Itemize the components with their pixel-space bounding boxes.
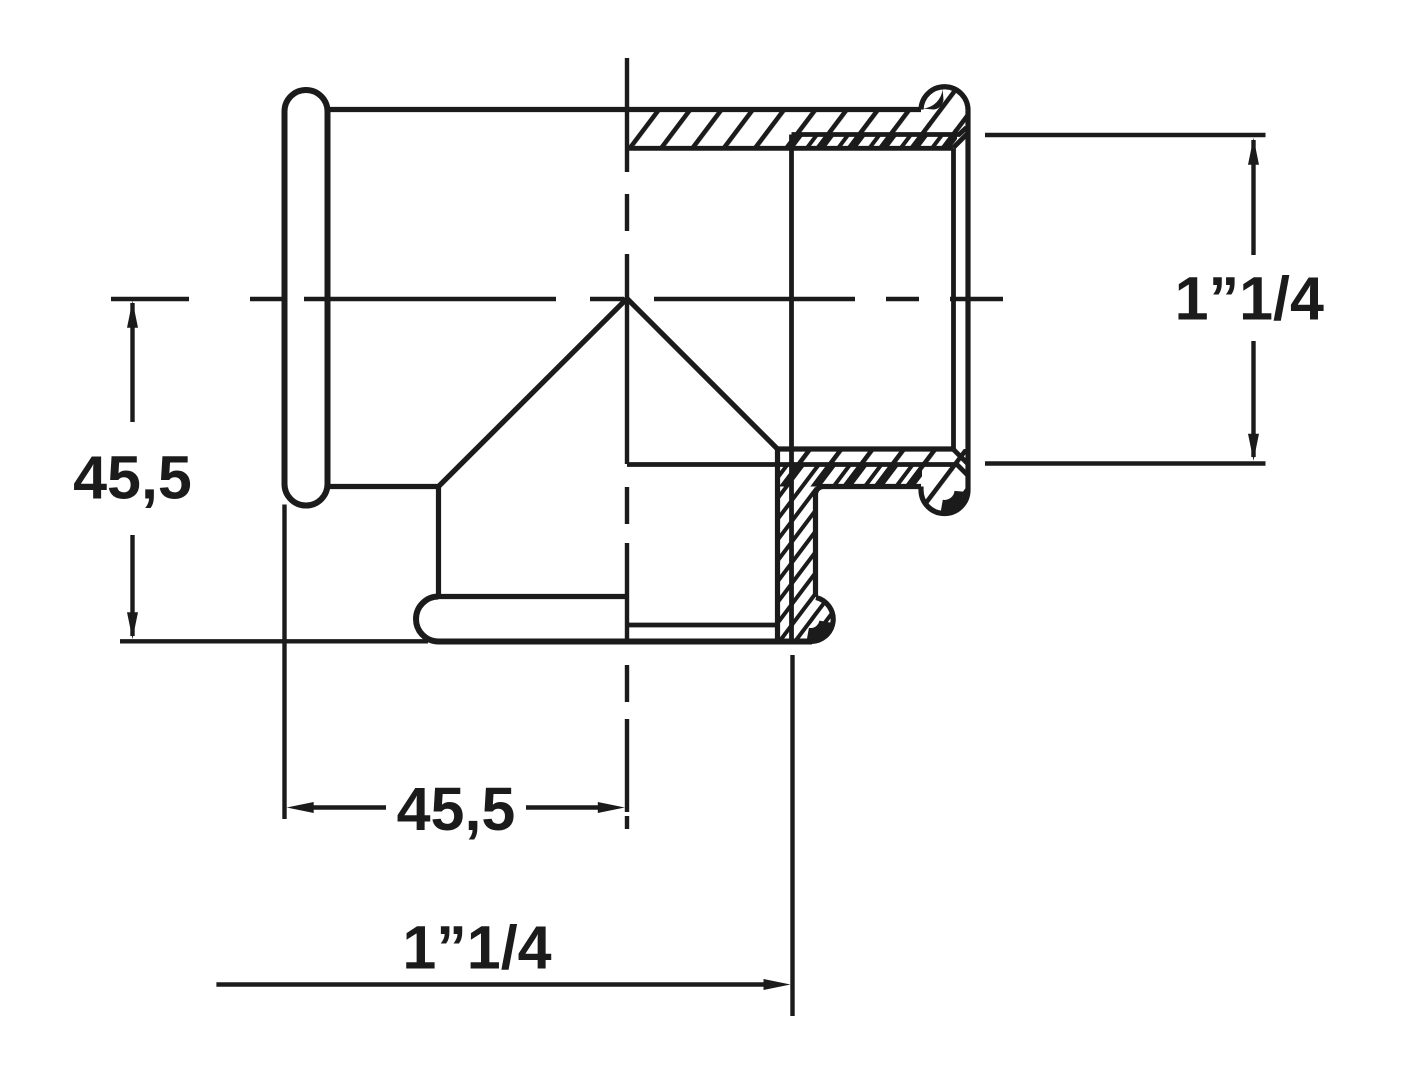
mouth chamfer cone top: [954, 134, 968, 148]
capsule end inner crescent: [807, 621, 831, 640]
bottom bead interior mask: [924, 469, 966, 511]
hatch: thread strip bottom (dense): [778, 465, 923, 487]
mouth chamfer line right socket: [951, 148, 956, 449]
bore line bottom: [627, 465, 968, 476]
hatch: thread strip top (dense): [792, 135, 958, 149]
arrowhead 45,5 bottom right: [598, 802, 625, 813]
dim 45,5 left: extension line: [120, 639, 428, 643]
top-right bead arc: [921, 87, 968, 111]
bottom bead inner crescent: [941, 491, 966, 512]
hatch: bottom wall of right outlet (sparse): [778, 449, 969, 487]
mouth chamfer line bottom socket: [627, 623, 778, 628]
arrowhead 45,5 bottom left: [287, 802, 314, 813]
dim 45,5 left: dimension line: [130, 303, 134, 636]
svg-text:1”1/4: 1”1/4: [402, 913, 551, 981]
top bead inner crescent: [923, 89, 943, 109]
top line of right socket bottom wall: [778, 446, 954, 451]
vertical centerline: [625, 58, 629, 829]
arrowhead 1"1/4 right up: [1248, 138, 1259, 165]
outer corner of L section: [775, 449, 780, 642]
left socket mouth bead capsule: [285, 90, 328, 506]
left socket bottom and bottom outlet left wall: [328, 487, 439, 597]
svg-text:45,5: 45,5: [73, 444, 192, 512]
dim 45,5 bottom: extension line: [282, 505, 286, 820]
dim 1"1/4 right: extension lines: [985, 135, 1266, 464]
dim 1"1/4 bottom: dimension line: [216, 982, 776, 986]
bottom capsule left end and bottom line: [416, 597, 812, 642]
hatch: bottom capsule right end lobe (dense): [811, 597, 834, 642]
mouth chamfer cone bottom: [954, 450, 968, 464]
top band inner line: [627, 146, 954, 151]
bottom-right bead arc: [921, 490, 968, 514]
bottom capsule right end arc: [811, 598, 834, 642]
arrowhead 45,5 left down: [127, 612, 138, 639]
arrowhead 1"1/4 bottom right: [764, 979, 791, 990]
top bead interior mask: [924, 90, 966, 132]
hatch: top wall of right outlet (sparse): [627, 86, 968, 148]
hatch: right wall of bottom outlet (dense): [778, 487, 816, 642]
dim 1"1/4 bottom: extension line: [790, 655, 794, 1016]
arrowhead 1"1/4 right down: [1248, 434, 1259, 461]
dim 1"1/4 right: dimension line: [1251, 140, 1255, 457]
hatch: bottom-right bead circle (sparse): [923, 468, 967, 512]
svg-text:45,5: 45,5: [397, 775, 516, 843]
bottom line of right socket with fillet into bottom outlet wall: [816, 487, 922, 598]
top outer surface: [328, 107, 922, 112]
diagonal to L corner: [627, 299, 778, 450]
thread end vertical: [789, 135, 794, 642]
dim 45,5 bottom: dimension line: [313, 805, 599, 809]
diagonal to left mouth: [439, 299, 628, 487]
hatch: top bead (sparse): [923, 89, 967, 133]
arrowhead 45,5 left up: [127, 301, 138, 328]
horizontal centerline: [111, 297, 1003, 301]
thread root line top: [792, 128, 967, 135]
mouth bottom step: [918, 487, 923, 491]
bottom capsule top line: [439, 594, 628, 599]
right mouth face: [965, 111, 970, 490]
svg-text:1”1/4: 1”1/4: [1175, 264, 1324, 332]
